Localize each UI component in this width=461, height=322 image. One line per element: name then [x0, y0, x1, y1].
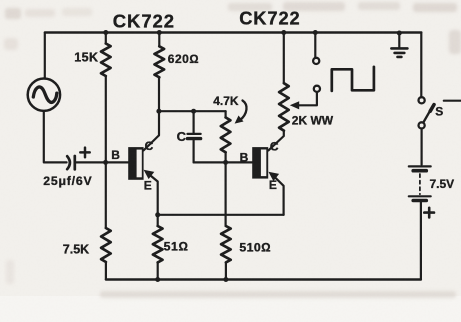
wire bottom rail — [106, 278, 421, 280]
signal generator (sine-wave source) — [28, 79, 60, 111]
upper output jack — [313, 58, 319, 64]
wire left vertical from top rail to generator — [44, 33, 46, 79]
label B (Q2) — [240, 151, 249, 165]
potentiometer 2K WW — [279, 33, 289, 131]
junction dot bottom rail / 51 ohm — [155, 277, 160, 282]
square wave symbol — [332, 67, 374, 91]
junction dot 4.7K / Q2 base / 510 ohm — [223, 160, 228, 165]
capacitor C plates — [188, 134, 201, 139]
wire top rail down to switch — [420, 33, 422, 98]
transistor Q2 collector lead — [268, 131, 283, 151]
wire stub right of switch — [444, 100, 461, 102]
label 7.5K — [63, 243, 89, 257]
wire top rail — [45, 31, 421, 33]
label S — [435, 105, 443, 119]
potentiometer wiper arrow — [290, 92, 317, 109]
label 7.5V — [430, 177, 455, 191]
transistor Q1 CK722 body — [128, 147, 143, 180]
junction dot capacitor C branch — [191, 109, 196, 114]
transistor Q1 emitter lead with arrow — [144, 170, 158, 215]
resistor 15K — [101, 33, 111, 163]
capacitor 25uf/6V (polarized, curved plate left) — [67, 148, 90, 170]
wire 620 ohm to Q1 collector node — [156, 77, 161, 135]
capacitor C branch wires — [193, 111, 195, 162]
label 25uf/6V — [43, 174, 92, 188]
junction dot Q1 emitter / 51 ohm — [155, 212, 160, 217]
junction dot top rail / ground — [397, 31, 402, 36]
wire emitter rail — [158, 214, 284, 216]
resistor 510 ohm (wire crosses emitter rail, no dot) — [221, 162, 231, 279]
label C — [177, 129, 187, 144]
wire Q2 base line — [194, 161, 253, 163]
label 2K WW — [292, 114, 334, 128]
junction dot top rail / 620 — [157, 30, 162, 35]
transistor Q1 collector lead — [144, 135, 159, 150]
wire top rail to upper output jack — [314, 33, 316, 58]
junction dot top rail / 15K — [103, 30, 108, 35]
label E (Q2) — [269, 178, 277, 192]
wire battery to bottom rail — [420, 202, 422, 279]
wire switch to battery — [421, 129, 423, 165]
label 510 ohm — [239, 241, 271, 255]
wire collector node to 4.7K (cross-coupling line) — [159, 110, 226, 112]
label C (Q1) — [145, 139, 154, 153]
resistor 51 ohm — [153, 215, 163, 280]
transistor Q2 emitter lead with arrow — [268, 172, 283, 215]
battery plus sign — [424, 208, 434, 218]
junction dot top rail / output jack — [313, 30, 318, 35]
label 51 ohm — [164, 240, 189, 254]
ground — [391, 33, 407, 57]
wire capacitor to Q1 base, node at 15K column — [75, 160, 128, 165]
label 620 ohm — [168, 52, 199, 66]
label B (Q1) — [111, 148, 120, 162]
junction dot top rail / 2K WW — [281, 30, 286, 35]
label C (Q2) — [270, 139, 279, 153]
label 4.7K with pointer arrow — [213, 94, 246, 123]
switch S — [419, 97, 435, 128]
label E (Q1) — [144, 178, 152, 192]
label CK722 (right transistor) — [239, 8, 300, 29]
lower output jack — [314, 86, 320, 92]
wire generator to coupling capacitor — [44, 111, 67, 162]
resistor 620 ohm — [155, 33, 165, 78]
junction dot bottom rail / 510 ohm — [223, 277, 228, 282]
resistor 4.7K — [221, 111, 231, 162]
resistor 7.5K — [101, 162, 111, 279]
label CK722 (left transistor) — [113, 11, 175, 32]
label 15K — [74, 50, 98, 64]
battery 7.5V — [409, 166, 431, 200]
transistor Q2 CK722 body — [252, 147, 268, 179]
